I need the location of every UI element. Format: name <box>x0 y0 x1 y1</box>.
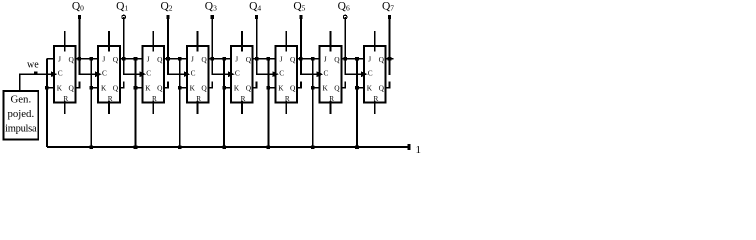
JK flip-flop FF2 <box>98 46 120 102</box>
FF7 clock input arrowhead <box>317 71 323 77</box>
svg-text:R: R <box>63 95 68 103</box>
node K junction FF1 <box>45 86 49 90</box>
svg-text:Q6: Q6 <box>338 0 350 12</box>
wire J/K tie vertical of FF4 <box>179 59 181 147</box>
wire logic-1 bus (J/K tie line) <box>47 146 409 148</box>
wire Q6 output stub <box>341 58 364 60</box>
wire Q0 to C of FF2 <box>79 73 97 75</box>
wire Q2 to C of FF4 <box>167 73 185 75</box>
node Q5 terminal dot <box>299 15 302 19</box>
node Q3 stub junction <box>211 57 215 61</box>
svg-text:K: K <box>57 84 63 93</box>
svg-text:K: K <box>323 84 329 93</box>
svg-text:J: J <box>58 54 61 63</box>
wire Qbar stub of FF2 <box>120 81 124 87</box>
bus end terminal tick <box>408 144 411 150</box>
JK flip-flop FF1 <box>54 46 76 102</box>
svg-text:J: J <box>280 54 283 63</box>
node Q7 stub junction <box>388 57 392 61</box>
FF8 clear stub (bottom) <box>374 101 376 114</box>
node Q1 stub junction <box>122 57 126 61</box>
svg-text:C: C <box>279 68 284 77</box>
FF6 clear stub (bottom) <box>285 101 287 114</box>
wire Q4 output stub <box>253 58 276 60</box>
FF8 clock input arrowhead <box>361 71 367 77</box>
svg-text:K: K <box>101 84 107 93</box>
wire Qbar stub of FF8 <box>386 81 390 87</box>
pulse generator box <box>3 91 38 140</box>
wire Q1 to C of FF3 <box>123 73 141 75</box>
wire J stub of FF8 <box>357 58 364 60</box>
wire K stub of FF6 <box>268 87 275 89</box>
node Q0 stub junction <box>78 57 82 61</box>
node Q3 terminal dot <box>211 15 214 19</box>
wire J/K tie vertical of FF3 <box>135 59 137 147</box>
wire Q4 to C of FF6 <box>256 73 274 75</box>
svg-text:Q: Q <box>157 55 163 64</box>
FF2 clock input arrowhead <box>95 71 101 77</box>
FF2 preset stub (top) <box>108 31 110 51</box>
wire J stub of FF7 <box>313 58 320 60</box>
FF4 clear stub (bottom) <box>197 101 199 114</box>
FF5 clock input arrowhead <box>228 71 234 77</box>
FF4 clock input arrowhead <box>184 71 190 77</box>
wire Q1 output stub <box>120 58 143 60</box>
FF7 preset stub (top) <box>330 31 332 51</box>
wire Qbar stub of FF1 <box>76 81 80 87</box>
JK flip-flop FF3 <box>143 46 165 102</box>
svg-text:Q: Q <box>246 84 252 93</box>
node bus junction FF2 <box>89 145 93 149</box>
svg-text:R: R <box>285 95 290 103</box>
svg-text:R: R <box>374 95 379 103</box>
node Q2 stub junction <box>166 57 170 61</box>
svg-text:Q: Q <box>379 84 385 93</box>
wire we input to C of FF1 <box>19 73 52 75</box>
svg-text:Q: Q <box>69 55 75 64</box>
node K junction FF6 <box>267 86 271 90</box>
node J junction FF4 <box>178 57 182 61</box>
svg-text:Q: Q <box>157 84 163 93</box>
FF2 clear stub (bottom) <box>108 101 110 114</box>
svg-text:Q: Q <box>334 84 340 93</box>
node J junction FF8 <box>355 57 359 61</box>
wire K stub of FF1 <box>47 87 54 89</box>
wire J stub of FF2 <box>91 58 98 60</box>
node K junction FF4 <box>178 86 182 90</box>
svg-text:Q3: Q3 <box>205 0 217 12</box>
node J junction FF6 <box>267 57 271 61</box>
svg-text:Q: Q <box>201 55 207 64</box>
svg-text:J: J <box>102 54 105 63</box>
svg-text:Q7: Q7 <box>382 0 394 12</box>
svg-text:C: C <box>368 68 373 77</box>
wire J/K tie vertical of FF5 <box>223 59 225 147</box>
wire Q6 output vertical <box>344 17 346 75</box>
node bus junction FF4 <box>178 145 182 149</box>
svg-text:Q: Q <box>379 55 385 64</box>
FF1 clear stub (bottom) <box>64 101 66 114</box>
svg-text:Q: Q <box>201 84 207 93</box>
wire Q6 to C of FF8 <box>344 73 362 75</box>
wire J stub of FF1 <box>47 58 54 60</box>
node J junction FF2 <box>89 57 93 61</box>
node bus junction FF8 <box>355 145 359 149</box>
svg-text:J: J <box>324 54 327 63</box>
svg-text:R: R <box>108 95 113 103</box>
wire Q3 output vertical <box>211 17 213 75</box>
JK flip-flop FF7 <box>320 46 342 102</box>
wire Q4 output vertical <box>256 17 258 75</box>
wire J stub of FF5 <box>224 58 231 60</box>
svg-text:Q5: Q5 <box>293 0 305 12</box>
svg-text:J: J <box>368 54 371 63</box>
wire K stub of FF4 <box>180 87 187 89</box>
wire Qbar stub of FF4 <box>208 81 212 87</box>
JK flip-flop FF8 <box>364 46 386 102</box>
svg-text:Q: Q <box>290 55 296 64</box>
FF6 preset stub (top) <box>285 31 287 51</box>
svg-text:Gen.: Gen. <box>10 94 31 106</box>
wire K stub of FF5 <box>224 87 231 89</box>
JK flip-flop FF4 <box>187 46 209 102</box>
node bus junction FF3 <box>134 145 138 149</box>
svg-text:1: 1 <box>416 144 422 156</box>
svg-text:Q: Q <box>334 55 340 64</box>
FF8 preset stub (top) <box>374 31 376 51</box>
wire J stub of FF6 <box>268 58 275 60</box>
FF4 preset stub (top) <box>197 31 199 51</box>
wire J stub of FF3 <box>136 58 143 60</box>
FF3 preset stub (top) <box>152 31 154 51</box>
wire J stub of FF4 <box>180 58 187 60</box>
node J junction FF3 <box>134 57 138 61</box>
svg-text:Q2: Q2 <box>160 0 172 12</box>
svg-text:C: C <box>146 68 151 77</box>
wire K stub of FF7 <box>313 87 320 89</box>
node we terminal dot <box>34 72 38 76</box>
JK flip-flop FF6 <box>275 46 297 102</box>
wire K stub of FF2 <box>91 87 98 89</box>
svg-text:we: we <box>27 60 39 71</box>
node Q7 terminal dot <box>388 15 391 19</box>
node J junction FF7 <box>311 57 315 61</box>
svg-text:Q1: Q1 <box>116 0 128 12</box>
svg-text:R: R <box>152 95 157 103</box>
node Q4 stub junction <box>255 57 259 61</box>
node Q1 terminal dot <box>122 15 126 19</box>
svg-text:Q: Q <box>290 84 296 93</box>
svg-text:C: C <box>102 68 107 77</box>
wire Q5 output stub <box>297 58 320 60</box>
wire Qbar stub of FF6 <box>297 81 301 87</box>
node K junction FF2 <box>89 86 93 90</box>
node bus junction FF5 <box>222 145 226 149</box>
svg-text:R: R <box>241 95 246 103</box>
node Q4 terminal dot <box>255 15 258 19</box>
FF7 clear stub (bottom) <box>330 101 332 114</box>
svg-text:J: J <box>235 54 238 63</box>
wire Q5 output vertical <box>300 17 302 75</box>
FF5 clear stub (bottom) <box>241 101 243 114</box>
wire J/K tie vertical of FF8 <box>356 59 358 147</box>
FF1 clock input arrowhead <box>51 71 57 77</box>
svg-text:Q: Q <box>69 84 75 93</box>
wire Qbar stub of FF5 <box>253 81 257 87</box>
wire J/K tie vertical of FF1 <box>46 59 48 147</box>
node Q6 stub junction <box>343 57 347 61</box>
wire K stub of FF3 <box>136 87 143 89</box>
FF6 clock input arrowhead <box>272 71 278 77</box>
svg-text:C: C <box>191 68 196 77</box>
wire Q3 output stub <box>208 58 231 60</box>
node K junction FF5 <box>222 86 226 90</box>
svg-text:pojed.: pojed. <box>7 108 34 120</box>
node K junction FF7 <box>311 86 315 90</box>
JK flip-flop FF5 <box>231 46 253 102</box>
wire Q0 output stub <box>76 58 99 60</box>
svg-text:C: C <box>324 68 329 77</box>
svg-text:Q4: Q4 <box>249 0 261 12</box>
wire Q3 to C of FF5 <box>211 73 229 75</box>
wire J/K tie vertical of FF6 <box>267 59 269 147</box>
node bus junction FF6 <box>267 145 271 149</box>
FF3 clock input arrowhead <box>140 71 146 77</box>
wire J/K tie vertical of FF2 <box>90 59 92 147</box>
wire K stub of FF8 <box>357 87 364 89</box>
svg-text:Q: Q <box>113 55 119 64</box>
svg-text:K: K <box>234 84 240 93</box>
wire Qbar stub of FF3 <box>164 81 168 87</box>
FF1 preset stub (top) <box>64 31 66 51</box>
svg-text:K: K <box>190 84 196 93</box>
svg-text:K: K <box>367 84 373 93</box>
node Q0 terminal dot <box>78 15 81 19</box>
wire Q5 to C of FF7 <box>300 73 318 75</box>
svg-text:Q0: Q0 <box>72 0 84 12</box>
svg-text:C: C <box>58 68 63 77</box>
node Q6 terminal dot <box>343 15 347 19</box>
svg-text:K: K <box>278 84 284 93</box>
svg-text:J: J <box>147 54 150 63</box>
svg-text:C: C <box>235 68 240 77</box>
svg-text:R: R <box>329 95 334 103</box>
svg-text:impulsa: impulsa <box>5 124 37 135</box>
wire Q2 output stub <box>164 58 187 60</box>
node bus junction FF7 <box>311 145 315 149</box>
FF5 preset stub (top) <box>241 31 243 51</box>
wire J/K tie vertical of FF7 <box>312 59 314 147</box>
wire Q7 output vertical <box>389 17 391 75</box>
node J junction FF5 <box>222 57 226 61</box>
svg-text:J: J <box>191 54 194 63</box>
node Q5 stub junction <box>299 57 303 61</box>
wire Qbar stub of FF7 <box>341 81 345 87</box>
svg-text:R: R <box>196 95 201 103</box>
FF3 clear stub (bottom) <box>152 101 154 114</box>
node K junction FF8 <box>355 86 359 90</box>
wire Q7 output stub <box>386 58 394 60</box>
svg-text:K: K <box>145 84 151 93</box>
node K junction FF3 <box>134 86 138 90</box>
wire Q0 output vertical <box>78 17 80 75</box>
svg-text:Q: Q <box>113 84 119 93</box>
wire Q2 output vertical <box>167 17 169 75</box>
wire Q1 output vertical <box>123 17 125 75</box>
wire generator output (vertical to we line) <box>19 74 21 91</box>
node Q2 terminal dot <box>166 15 169 19</box>
svg-text:Q: Q <box>246 55 252 64</box>
